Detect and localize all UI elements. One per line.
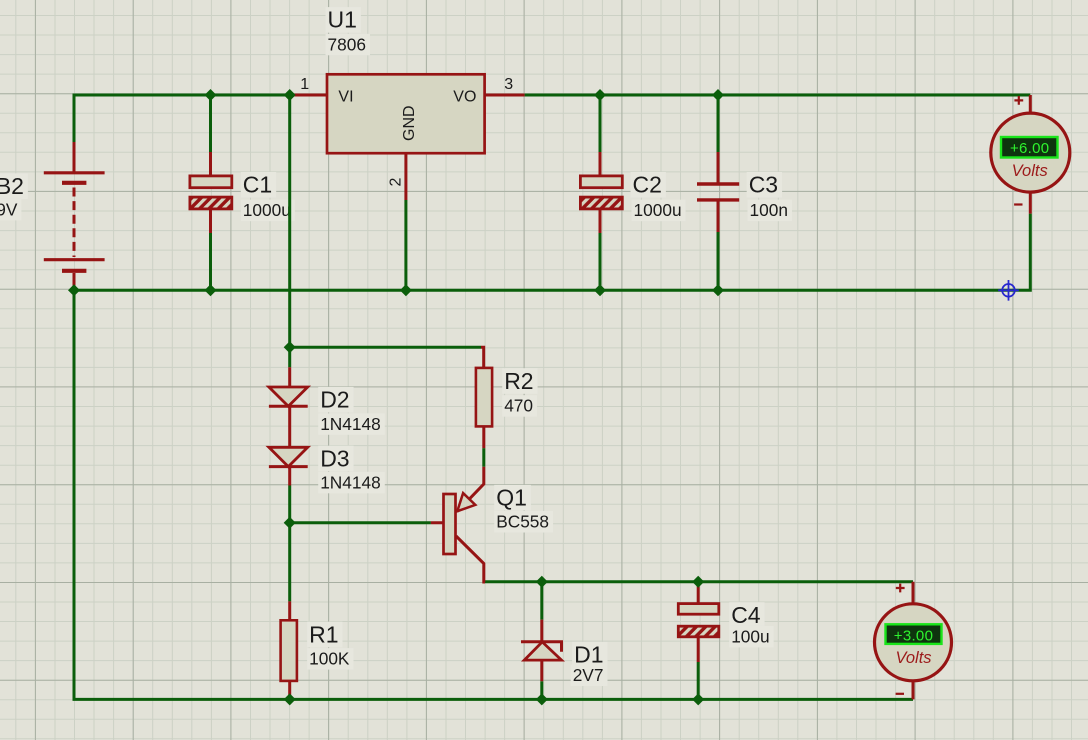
svg-text:9V: 9V (0, 199, 18, 219)
svg-text:+3.00: +3.00 (894, 628, 933, 645)
svg-text:C4: C4 (731, 602, 761, 628)
svg-text:C1: C1 (243, 172, 272, 198)
svg-text:2V7: 2V7 (573, 665, 604, 685)
svg-text:D3: D3 (320, 445, 349, 471)
svg-text:1N4148: 1N4148 (320, 472, 381, 492)
svg-text:R1: R1 (309, 621, 338, 647)
svg-text:C3: C3 (749, 172, 778, 198)
svg-text:3: 3 (504, 76, 513, 93)
svg-text:GND: GND (401, 105, 418, 141)
svg-text:100n: 100n (750, 200, 788, 220)
svg-text:1000u: 1000u (243, 200, 291, 220)
svg-text:Volts: Volts (1012, 162, 1048, 180)
svg-text:D1: D1 (574, 642, 603, 668)
svg-text:B2: B2 (0, 173, 24, 199)
svg-text:BC558: BC558 (496, 512, 549, 532)
svg-text:D2: D2 (320, 387, 349, 413)
svg-text:Volts: Volts (895, 649, 931, 667)
svg-text:100u: 100u (731, 626, 769, 646)
svg-text:470: 470 (504, 396, 533, 416)
svg-text:Q1: Q1 (496, 485, 527, 511)
svg-text:VO: VO (453, 88, 476, 105)
svg-text:7806: 7806 (328, 34, 366, 54)
svg-text:100K: 100K (309, 649, 350, 669)
svg-text:1: 1 (300, 76, 309, 93)
svg-text:U1: U1 (328, 7, 357, 33)
svg-text:2: 2 (387, 178, 404, 187)
svg-text:1000u: 1000u (634, 200, 682, 220)
svg-text:+6.00: +6.00 (1010, 140, 1049, 157)
svg-text:R2: R2 (504, 368, 533, 394)
svg-text:1N4148: 1N4148 (320, 414, 381, 434)
svg-text:VI: VI (338, 88, 353, 105)
svg-text:C2: C2 (633, 172, 662, 198)
